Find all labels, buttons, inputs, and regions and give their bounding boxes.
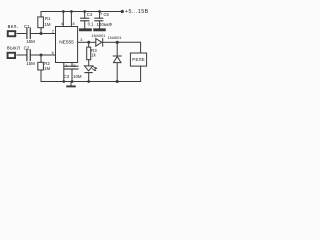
node pin1 bottom junction xyxy=(62,80,65,83)
node C (pin3/R3/VD1) xyxy=(87,41,90,44)
node pin8 rail junction xyxy=(70,10,73,13)
svg-text:3: 3 xyxy=(80,38,82,42)
node C4 rail junction xyxy=(83,10,86,13)
LED HL1 xyxy=(85,66,93,71)
node B (C2/R2/pin6) xyxy=(40,54,43,57)
wire node C to R3 xyxy=(88,42,90,47)
node +V terminal xyxy=(121,10,124,13)
wire pin1 to bottom rail xyxy=(63,63,65,82)
node D (VD1/VD2/relay) xyxy=(116,41,119,44)
diode VD2 1N4001 flyback xyxy=(113,55,121,57)
wire node D to relay xyxy=(117,42,140,53)
wire pin4 xyxy=(62,12,64,27)
wire node C to VD1 xyxy=(89,41,96,43)
svg-text:6: 6 xyxy=(52,51,54,55)
node C3 bottom junction xyxy=(71,80,74,83)
svg-text:+5...15В: +5...15В xyxy=(125,9,149,15)
svg-text:1k: 1k xyxy=(91,52,96,57)
wire top rail xyxy=(41,12,121,17)
svg-text:выкл: выкл xyxy=(7,46,20,52)
svg-text:C3: C3 xyxy=(64,74,70,79)
svg-text:R1: R1 xyxy=(45,16,51,21)
node C5 rail junction xyxy=(98,10,101,13)
svg-text:15М: 15М xyxy=(26,61,35,66)
svg-text:1М: 1М xyxy=(44,22,50,27)
button ON pad xyxy=(8,31,16,36)
resistor R3 xyxy=(87,47,91,60)
button OFF pad xyxy=(8,53,16,58)
svg-text:вкл.: вкл. xyxy=(8,24,19,30)
ground main xyxy=(70,82,72,86)
wire bottom rail xyxy=(41,81,141,83)
wire node B to pin6 xyxy=(41,54,56,56)
capacitor C3 xyxy=(64,65,78,67)
wire pin5 to C3 xyxy=(71,63,73,67)
svg-text:C5: C5 xyxy=(104,12,110,17)
resistor R1 xyxy=(38,17,44,28)
node pin4 rail junction xyxy=(62,10,65,13)
wire VD2 to bottom rail xyxy=(116,63,118,82)
wire C3 to bottom rail xyxy=(71,69,73,82)
svg-text:15М: 15М xyxy=(26,39,35,44)
svg-text:10М: 10М xyxy=(73,74,82,79)
diode VD1 1N4001 xyxy=(96,39,102,47)
svg-text:РЕЛЕ: РЕЛЕ xyxy=(132,57,145,62)
svg-text:C2: C2 xyxy=(24,45,30,50)
wire node A to pin2 xyxy=(41,33,56,35)
svg-text:0.1: 0.1 xyxy=(88,22,94,27)
svg-text:1N4001: 1N4001 xyxy=(108,35,123,40)
wire C2 to node B xyxy=(30,54,41,56)
node VD2 bottom junction xyxy=(116,80,119,83)
wire R1 to node A xyxy=(40,28,42,34)
capacitor C5 electrolytic xyxy=(99,12,101,19)
wire pin3 output xyxy=(78,41,89,43)
ground C5 xyxy=(95,28,105,31)
wire relay to bottom rail xyxy=(140,66,142,81)
svg-text:1М: 1М xyxy=(44,66,50,71)
op-amp U1 NE555 box xyxy=(56,27,78,63)
wire R3 to LED xyxy=(88,60,90,66)
svg-text:C1: C1 xyxy=(24,24,30,29)
resistor R2 xyxy=(38,62,44,70)
capacitor C2 xyxy=(26,50,28,61)
wire button ON to C1 xyxy=(17,33,26,35)
wire pin8 xyxy=(70,12,72,27)
svg-text:NE555: NE555 xyxy=(59,40,74,46)
svg-text:1N4001: 1N4001 xyxy=(91,33,106,38)
capacitor C1 xyxy=(26,28,28,39)
wire C1 to node A xyxy=(30,33,41,35)
svg-text:1: 1 xyxy=(65,64,67,68)
relay K1 box xyxy=(130,53,146,66)
LED arrows xyxy=(93,67,96,69)
svg-text:2: 2 xyxy=(52,29,54,33)
node A (R1/C1/pin2) xyxy=(40,32,43,35)
wire R2 to bottom rail xyxy=(40,70,42,82)
ground C4 xyxy=(81,28,91,31)
svg-text:5: 5 xyxy=(73,64,75,68)
svg-text:100мкФ: 100мкФ xyxy=(97,22,112,27)
wire node B to R2 xyxy=(40,55,42,62)
svg-text:8: 8 xyxy=(73,22,75,26)
wire node D to VD2 xyxy=(116,42,118,56)
svg-text:4: 4 xyxy=(61,22,63,26)
wire button OFF to C2 xyxy=(17,54,26,56)
wire VD1 to node D xyxy=(103,41,118,43)
capacitor C4 xyxy=(84,12,86,19)
node LED bottom junction xyxy=(87,80,90,83)
svg-text:C4: C4 xyxy=(87,12,93,17)
